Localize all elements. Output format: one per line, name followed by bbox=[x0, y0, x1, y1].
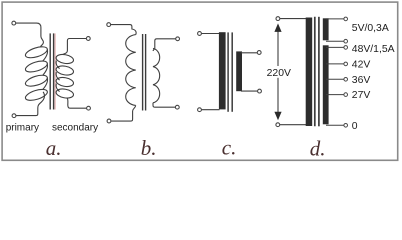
svg-text:a.: a. bbox=[46, 136, 62, 160]
svg-text:secondary: secondary bbox=[52, 123, 98, 134]
svg-text:d.: d. bbox=[310, 137, 326, 161]
svg-text:220V: 220V bbox=[267, 68, 291, 79]
svg-text:42V: 42V bbox=[352, 60, 371, 71]
svg-text:48V/1,5A: 48V/1,5A bbox=[352, 44, 395, 55]
svg-text:5V/0,3A: 5V/0,3A bbox=[352, 23, 389, 34]
svg-text:0: 0 bbox=[352, 121, 358, 132]
svg-text:36V: 36V bbox=[352, 75, 371, 86]
svg-text:c.: c. bbox=[222, 136, 237, 160]
svg-text:b.: b. bbox=[141, 136, 157, 160]
svg-text:27V: 27V bbox=[352, 90, 371, 101]
svg-text:primary: primary bbox=[6, 123, 39, 134]
